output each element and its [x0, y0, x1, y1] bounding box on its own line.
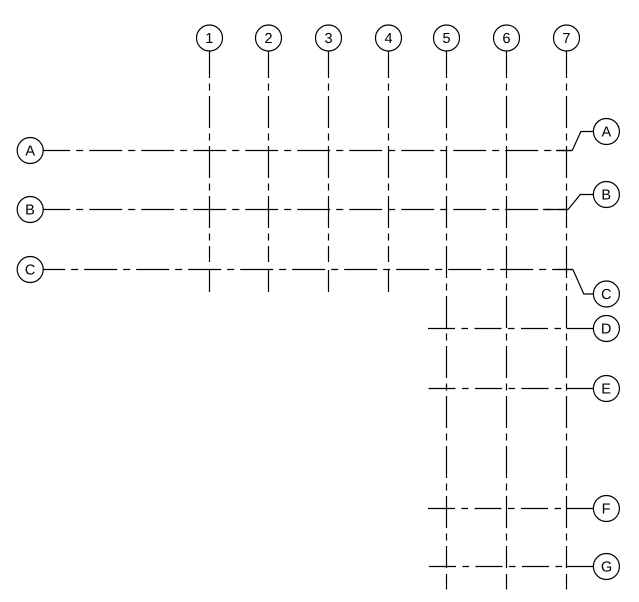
- bubble 7 (top): [554, 25, 580, 51]
- bubble C right: [593, 281, 619, 307]
- label 7: [563, 33, 570, 43]
- label C left: [26, 264, 35, 274]
- grid line 4 (vertical): [388, 51, 390, 262]
- bubble E right: [593, 376, 619, 402]
- grid line F (horizontal): [428, 508, 567, 510]
- label B left: [26, 205, 34, 215]
- label D right: [602, 324, 611, 334]
- label 5: [443, 33, 450, 43]
- grid line E right solid segment to bubble: [567, 388, 594, 390]
- bubble 1 (top): [197, 25, 223, 51]
- bubble B left: [17, 197, 43, 223]
- grid line 3 bottom solid tail: [328, 270, 330, 292]
- grid line 1 (vertical): [209, 51, 211, 262]
- label B right: [603, 190, 611, 200]
- bubble C left: [17, 257, 43, 283]
- label F right: [603, 504, 610, 514]
- bubble 6 (top): [494, 25, 520, 51]
- label G right: [602, 561, 611, 571]
- bubble F right: [593, 496, 619, 522]
- label 2: [265, 33, 272, 43]
- grid line B right solid segment before jog: [543, 209, 568, 211]
- grid line A (horizontal): [43, 150, 572, 152]
- bubble 3 (top): [316, 25, 342, 51]
- label 1: [206, 33, 212, 43]
- label C right: [602, 289, 611, 299]
- grid line B jog elbow to right bubble: [568, 195, 593, 210]
- grid line D (horizontal): [428, 328, 567, 330]
- label A left: [25, 146, 35, 156]
- bubble A right: [593, 119, 619, 145]
- grid line G (horizontal): [429, 566, 567, 568]
- label 6: [503, 33, 510, 43]
- grid line G right solid segment to bubble: [567, 566, 594, 568]
- label 3: [325, 33, 332, 43]
- label A right: [602, 127, 612, 137]
- bubble 5 (top): [434, 25, 460, 51]
- grid line A jog elbow to right bubble: [572, 132, 593, 151]
- grid line 5 (vertical): [446, 51, 448, 568]
- grid line D right solid segment to bubble: [567, 328, 594, 330]
- grid line 6 bottom dash tail: [506, 574, 508, 590]
- grid line 1 bottom solid tail: [209, 270, 211, 292]
- label E right: [602, 384, 610, 394]
- grid line C jog elbow down to right bubble: [573, 270, 594, 295]
- grid line F right solid segment to bubble: [567, 508, 594, 510]
- grid line 2 bottom solid tail: [268, 270, 270, 292]
- bubble 4 (top): [376, 25, 402, 51]
- grid line C right solid segment before jog: [558, 269, 573, 271]
- grid line 2 (vertical): [268, 51, 270, 262]
- bubble D right: [593, 316, 619, 342]
- grid line 7 bottom dash tail: [566, 574, 568, 590]
- bubble B right: [593, 182, 619, 208]
- bubble G right: [593, 554, 619, 580]
- bubble 2 (top): [256, 25, 282, 51]
- grid line A right solid segment before jog: [556, 150, 572, 152]
- grid line E (horizontal): [429, 388, 567, 390]
- bubble A left: [17, 138, 43, 164]
- grid line 3 (vertical): [328, 51, 330, 262]
- grid line 7 (vertical): [566, 51, 568, 568]
- grid line C (horizontal): [43, 269, 573, 271]
- grid line 6 (vertical): [506, 51, 508, 568]
- grid line 4 bottom solid tail: [388, 270, 390, 292]
- grid line B (horizontal): [43, 209, 568, 211]
- grid line 5 bottom dash tail: [446, 574, 448, 590]
- label 4: [385, 33, 392, 43]
